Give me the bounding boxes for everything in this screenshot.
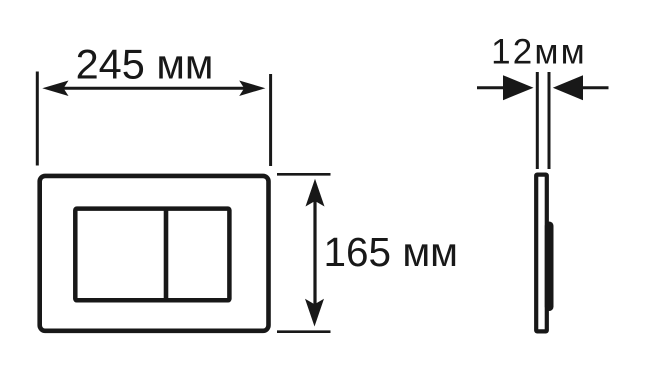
side view plate body [536,175,547,332]
dim 12 left extension line [536,72,539,169]
dim 12 left arrowhead [503,75,534,100]
dim 12 right lead line [581,86,609,89]
svg-text:245 мм: 245 мм [76,41,214,88]
svg-text:12мм: 12мм [491,33,587,72]
dim 245 right arrowhead [239,81,265,97]
button frame inner rect [75,209,229,301]
dim 245 dimension line [58,87,250,90]
button divider line [164,209,169,300]
dim 165 up arrowhead [306,179,325,207]
dim 165 bottom extension line [277,330,331,333]
front plate outer body [40,176,269,331]
dim 12 right extension line [548,72,551,169]
side view button bump [545,222,554,312]
dim 245 right extension line [269,74,272,166]
dim 165 top extension line [277,173,331,176]
dim 12 left lead line [477,86,505,89]
dim 245 left arrowhead [42,81,68,97]
dim 165 dimension line [313,200,316,308]
dim 12 right arrowhead [553,75,583,100]
dim 245 left extension line [36,72,39,166]
dim 165 down arrowhead [305,299,324,327]
svg-text:165 мм: 165 мм [324,229,459,275]
